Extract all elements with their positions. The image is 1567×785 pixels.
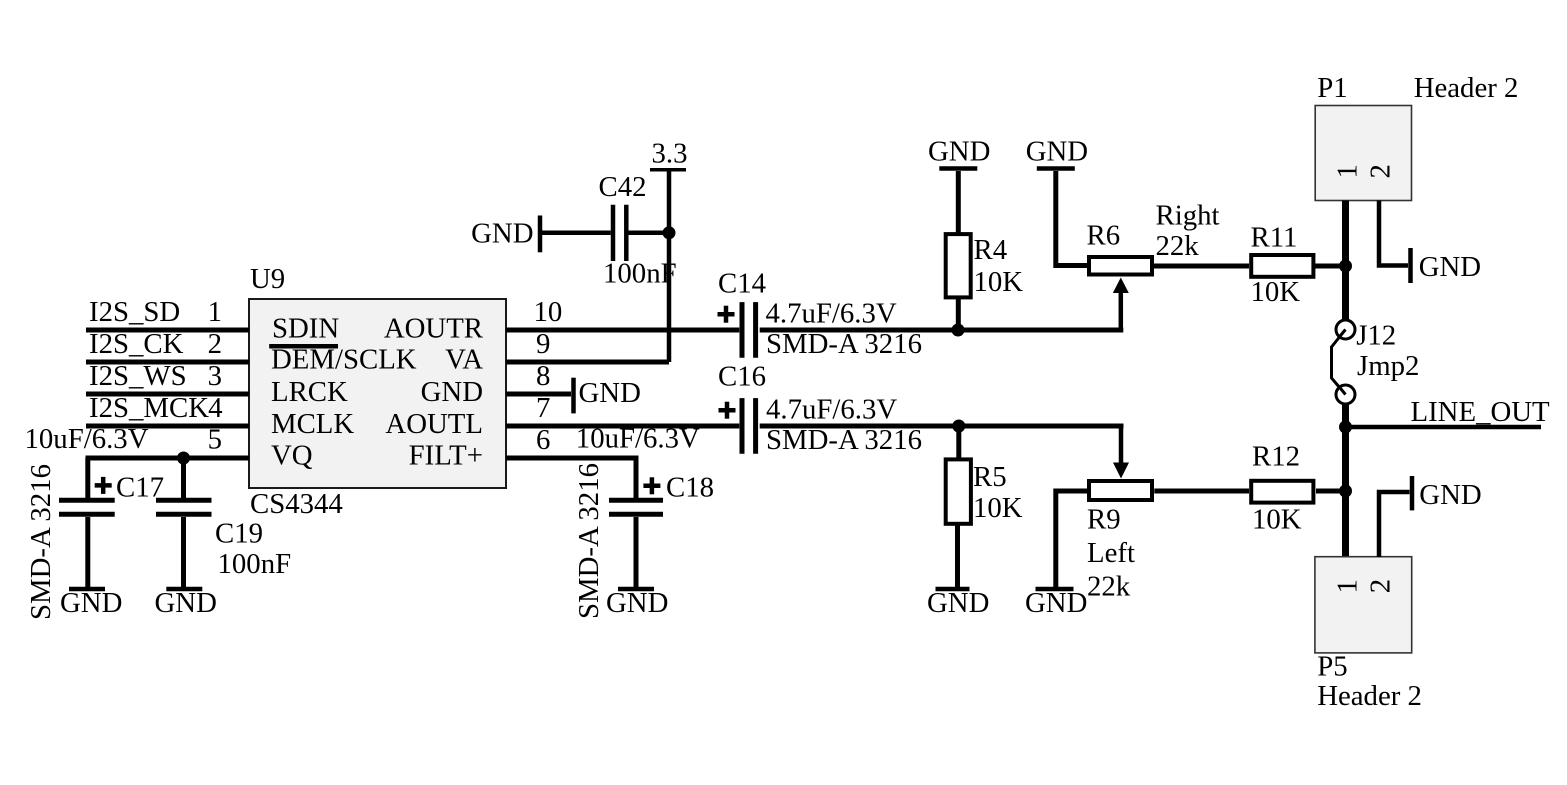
svg-text:4.7uF/6.3V: 4.7uF/6.3V — [766, 298, 897, 330]
svg-text:Left: Left — [1087, 537, 1135, 569]
label 10uF/6.3V C18 — [576, 423, 700, 455]
svg-text:10K: 10K — [974, 266, 1024, 298]
potentiometer R9 — [1087, 463, 1152, 603]
ground C42 — [471, 216, 540, 253]
junction R11/bus — [1339, 260, 1352, 273]
ground R5 — [927, 587, 989, 619]
node I2S_CK — [89, 328, 184, 360]
header P5 — [1315, 557, 1422, 712]
junction C42/3.3 — [663, 226, 676, 239]
svg-text:I2S_WS: I2S_WS — [89, 360, 187, 392]
jumper J12 — [1332, 320, 1420, 405]
svg-text:6: 6 — [536, 424, 550, 456]
svg-text:GND: GND — [1026, 136, 1088, 168]
wire GND to C42 — [542, 231, 611, 236]
capacitor C16 — [718, 361, 922, 457]
wire C19 branch — [181, 458, 186, 499]
node I2S_SD — [89, 296, 180, 328]
svg-text:I2S_MCK: I2S_MCK — [89, 392, 209, 424]
svg-text:Header 2: Header 2 — [1317, 680, 1422, 712]
capacitor C14 — [718, 268, 923, 361]
capacitor C17 — [59, 472, 164, 515]
ground P5 pin2 — [1412, 476, 1482, 511]
wire C16 to R9 wiper — [760, 426, 1124, 467]
svg-text:FILT+: FILT+ — [409, 439, 483, 471]
svg-text:VA: VA — [445, 343, 483, 375]
svg-text:1: 1 — [1332, 579, 1364, 593]
svg-text:2: 2 — [1365, 579, 1397, 593]
svg-text:I2S_CK: I2S_CK — [89, 328, 184, 360]
wire GND to R6 left — [1056, 171, 1087, 266]
svg-text:22k: 22k — [1156, 230, 1200, 262]
wire LINE_OUT — [1346, 425, 1542, 430]
junction R5/AOUTL — [952, 420, 965, 433]
svg-text:10uF/6.3V: 10uF/6.3V — [25, 423, 149, 455]
wire P1 pin2 to ground — [1379, 201, 1408, 266]
svg-text:7: 7 — [536, 392, 550, 424]
svg-text:LRCK: LRCK — [271, 376, 348, 408]
wire AOUTL to R5 — [956, 426, 961, 460]
IC U9 CS4344 — [249, 263, 506, 520]
ground P1 pin2 — [1411, 248, 1482, 283]
svg-text:GND: GND — [1419, 479, 1481, 511]
svg-text:GND: GND — [606, 587, 668, 619]
wire I2S_WS pin3 — [86, 392, 249, 397]
svg-text:R5: R5 — [973, 461, 1007, 493]
svg-text:GND: GND — [927, 587, 989, 619]
svg-text:2: 2 — [1365, 164, 1397, 178]
wire R12 to bus — [1316, 489, 1346, 494]
svg-text:GND: GND — [471, 218, 533, 250]
svg-text:GND: GND — [60, 587, 122, 619]
svg-text:22k: 22k — [1087, 571, 1131, 603]
resistor R12 — [1251, 441, 1313, 536]
wire C17 to ground — [85, 517, 90, 587]
node I2S_MCK — [89, 392, 209, 424]
svg-text:10K: 10K — [1251, 276, 1301, 308]
svg-text:100nF: 100nF — [218, 548, 292, 580]
svg-text:2: 2 — [208, 328, 222, 360]
wire J12 to P5 bus — [1342, 404, 1349, 557]
svg-text:SMD-A 3216: SMD-A 3216 — [766, 424, 922, 456]
ground pin8 — [574, 377, 641, 413]
svg-text:MCLK: MCLK — [271, 408, 354, 440]
label SMD-A 3216 C18 — [573, 463, 605, 619]
svg-text:R12: R12 — [1252, 441, 1300, 473]
svg-text:Header 2: Header 2 — [1414, 72, 1519, 104]
capacitor C19 — [156, 500, 291, 580]
svg-text:R6: R6 — [1087, 220, 1121, 252]
wire GND pin8 — [506, 392, 571, 397]
ground C17 — [60, 587, 122, 619]
svg-text:9: 9 — [536, 328, 550, 360]
wire C19 to ground — [181, 517, 186, 587]
node I2S_WS — [89, 360, 187, 392]
ground R4 top — [928, 136, 990, 169]
svg-text:Jmp2: Jmp2 — [1357, 350, 1419, 382]
svg-text:C42: C42 — [599, 171, 647, 203]
label Right 22k — [1156, 200, 1220, 263]
capacitor C18 — [609, 472, 714, 515]
ground R9 left — [1025, 587, 1087, 619]
svg-text:10: 10 — [534, 296, 563, 328]
svg-text:3: 3 — [208, 360, 222, 392]
resistor R11 — [1251, 222, 1314, 309]
svg-text:C14: C14 — [718, 268, 766, 300]
svg-text:Right: Right — [1156, 200, 1220, 232]
svg-text:1: 1 — [208, 296, 222, 328]
potentiometer R6 — [1087, 220, 1153, 294]
wire R9 to R12 — [1154, 489, 1249, 494]
svg-text:VQ: VQ — [271, 439, 313, 471]
ground R6 top — [1026, 136, 1088, 169]
wire GND to R4 — [956, 171, 961, 233]
svg-text:LINE_OUT: LINE_OUT — [1411, 396, 1551, 428]
wire C14 to R6 wiper — [760, 288, 1124, 330]
wire C18 to ground — [634, 517, 639, 587]
wire R4 to AOUTR — [956, 297, 961, 331]
wire FILT+ pin6 — [506, 456, 636, 499]
svg-text:CS4344: CS4344 — [250, 488, 343, 520]
wire AOUTR pin10 — [506, 328, 739, 333]
wire P1 pin1 bus to J12 — [1342, 201, 1349, 322]
power 3.3 — [650, 138, 688, 170]
svg-text:10K: 10K — [973, 492, 1023, 524]
wire I2S_SD pin1 — [86, 328, 249, 333]
svg-text:SDIN: SDIN — [272, 313, 339, 345]
svg-text:GND: GND — [579, 377, 641, 409]
svg-text:C18: C18 — [666, 472, 714, 504]
resistor R4 — [946, 234, 1024, 298]
svg-text:SMD-A 3216: SMD-A 3216 — [766, 328, 922, 360]
svg-text:P1: P1 — [1317, 72, 1347, 104]
svg-text:GND: GND — [1419, 251, 1481, 283]
junction VQ/C19 — [177, 452, 190, 465]
svg-text:J12: J12 — [1356, 320, 1396, 352]
wire P5 pin2 to ground — [1379, 492, 1410, 557]
header P1 — [1315, 72, 1518, 201]
wire R11 to bus — [1315, 264, 1346, 269]
svg-text:R4: R4 — [974, 234, 1008, 266]
pin numbers U9 right — [534, 296, 563, 456]
svg-text:1: 1 — [1332, 164, 1364, 178]
svg-text:SMD-A 3216: SMD-A 3216 — [573, 463, 605, 619]
svg-text:8: 8 — [536, 360, 550, 392]
junction R4/AOUTR — [952, 324, 965, 337]
svg-text:C16: C16 — [718, 361, 766, 393]
svg-text:SMD-A 3216: SMD-A 3216 — [25, 464, 57, 620]
capacitor C42 — [599, 171, 677, 290]
label SMD-A 3216 C17 — [25, 464, 57, 620]
junction R12/bus — [1339, 485, 1352, 498]
svg-text:10K: 10K — [1252, 504, 1302, 536]
wire I2S_CK pin2 — [86, 360, 249, 365]
svg-text:AOUTL: AOUTL — [385, 408, 483, 440]
ground C19 — [155, 587, 217, 619]
label 10uF/6.3V C17 — [25, 423, 149, 455]
svg-text:DEM/SCLK: DEM/SCLK — [271, 343, 417, 375]
svg-text:100nF: 100nF — [603, 258, 677, 290]
svg-text:4.7uF/6.3V: 4.7uF/6.3V — [766, 394, 897, 426]
wire VQ pin5 — [86, 458, 250, 499]
svg-text:GND: GND — [928, 136, 990, 168]
wire R6 to R11 — [1154, 264, 1249, 269]
svg-text:I2S_SD: I2S_SD — [89, 296, 180, 328]
wire R9 left to ground — [1056, 491, 1087, 587]
svg-text:C19: C19 — [215, 518, 263, 550]
svg-text:3.3: 3.3 — [652, 138, 688, 170]
wire R5 to ground — [955, 524, 960, 587]
wire I2S_MCK pin4 — [86, 424, 249, 429]
svg-text:4: 4 — [208, 392, 222, 424]
svg-text:R11: R11 — [1251, 222, 1298, 254]
svg-text:GND: GND — [155, 587, 217, 619]
ground C18 — [606, 587, 668, 619]
svg-text:R9: R9 — [1087, 504, 1121, 536]
wire C42 to 3.3 — [629, 231, 670, 236]
svg-text:U9: U9 — [250, 263, 285, 295]
wire AOUTL pin7 — [506, 424, 739, 429]
svg-text:10uF/6.3V: 10uF/6.3V — [576, 423, 700, 455]
svg-text:P5: P5 — [1317, 651, 1347, 683]
node LINE_OUT — [1411, 396, 1551, 428]
wire 3.3 to VA pin9 — [506, 170, 669, 362]
resistor R5 — [946, 459, 1023, 524]
svg-text:GND: GND — [421, 376, 483, 408]
pin numbers U9 left — [208, 296, 223, 456]
svg-text:AOUTR: AOUTR — [384, 313, 484, 345]
junction LINE_OUT — [1339, 421, 1352, 434]
svg-text:GND: GND — [1025, 587, 1087, 619]
